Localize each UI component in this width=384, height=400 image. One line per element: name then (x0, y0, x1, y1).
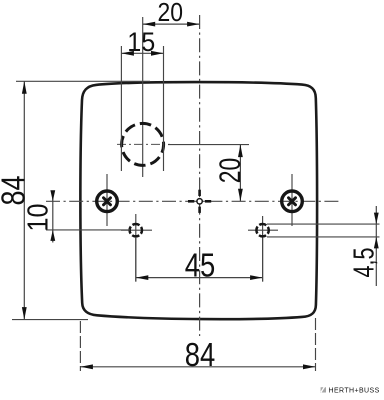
dimension 4,5 arrow top (outside, pointing down) (374, 213, 379, 225)
dimension 4,5 arrow bottom (outside, pointing up) (374, 237, 379, 249)
dimension 84 (bottom) arrow right (303, 364, 316, 369)
dimension 45 line (136, 277, 263, 279)
mounting hole right dia 4.5 (256, 224, 268, 236)
svg-text:20: 20 (157, 0, 183, 27)
dimension 84 (left) arrow top (22, 81, 27, 94)
mounting hole left crosshair vertical (135, 214, 137, 282)
dimension 84 (left) extension bottom (12, 319, 88, 321)
dimension 15 extension right (163, 46, 165, 171)
svg-text:20: 20 (214, 158, 247, 184)
screw head left cross recess (104, 198, 111, 205)
dimension 20 (top) arrow right (187, 22, 200, 27)
svg-text:4,5: 4,5 (349, 248, 381, 278)
dimension 84 (bottom) line (80, 366, 315, 368)
dimension 84 (left) arrow bottom (22, 307, 27, 320)
dimension 20 (top) arrow left (143, 22, 156, 27)
knockout circle axis vertical (142, 17, 144, 177)
horizontal centerline (part axis) (46, 200, 341, 202)
screw head left (ring) (97, 191, 118, 212)
dimension 84 (left) line (23, 81, 25, 319)
dimension 10 extension bottom (46, 229, 130, 231)
dimension 20 (vertical) extension top (168, 144, 249, 146)
screw head right crosshair (291, 174, 293, 226)
part outline (84x84 rounded square housing) (80, 82, 317, 319)
knockout circle axis horizontal (117, 143, 170, 145)
dimension 15 arrow left (121, 51, 133, 56)
svg-text:84: 84 (185, 336, 216, 373)
screw head right cross recess (289, 198, 296, 205)
dimension 20 (vertical) line (239, 145, 241, 202)
knockout hole dia 15 (dashed circle) (122, 123, 164, 165)
dimension 4,5 extension bottom (267, 236, 380, 238)
mounting hole left dia 4.5 (130, 224, 142, 236)
dimension 10 arrow bottom (outside, pointing up) (50, 230, 55, 241)
dimension 20 (top) line (143, 23, 200, 25)
dimension 45 arrow right (250, 275, 263, 280)
dimension 10 line (52, 192, 54, 243)
dimension 84 (bottom) extension right (315, 318, 317, 371)
dimension 45 extension right (262, 238, 264, 282)
dimension 15 line (121, 52, 163, 54)
dimension 4,5 line (375, 206, 377, 286)
dimension 20 (vertical) arrow bottom (238, 189, 243, 202)
dimension 15 extension left (120, 46, 122, 171)
dimension 10 arrow top (outside, pointing down) (50, 190, 55, 201)
screw head left crosshair (106, 174, 108, 226)
vertical centerline (part axis) (199, 15, 201, 336)
dimension 4,5 extension top (267, 223, 380, 225)
mounting hole left crosshair horizontal (121, 229, 152, 231)
dimension 45 arrow left (136, 275, 149, 280)
svg-text:84: 84 (0, 176, 32, 206)
svg-text:HERTH+BUSS: HERTH+BUSS (329, 388, 380, 395)
mounting hole right crosshair vertical (262, 216, 264, 282)
Herth+Buss logo mark (320, 387, 326, 392)
screw head right (ring) (282, 191, 303, 212)
dimension 84 (bottom) arrow left (80, 364, 93, 369)
svg-text:15: 15 (127, 27, 155, 57)
dimension 45 extension left (135, 237, 137, 282)
dimension 20 (vertical) arrow top (238, 145, 243, 158)
svg-text:45: 45 (185, 246, 216, 283)
dimension 84 (left) extension top (16, 80, 150, 82)
dimension 15 arrow right (151, 51, 164, 56)
dimension 84 (bottom) extension left (79, 321, 81, 371)
centre point marker (188, 190, 211, 213)
mounting hole right crosshair horizontal (248, 229, 278, 231)
svg-text:10: 10 (23, 204, 55, 232)
